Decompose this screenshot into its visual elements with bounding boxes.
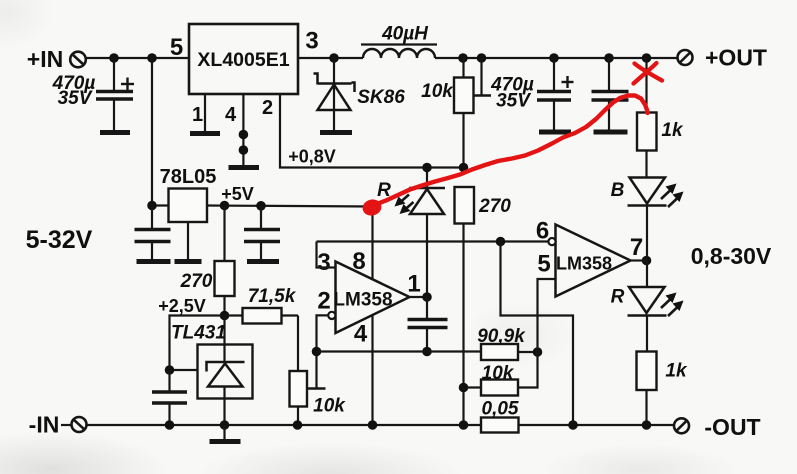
svg-text:1k: 1k: [665, 361, 688, 382]
svg-text:78L05: 78L05: [160, 166, 217, 188]
wire 1k chain top: [645, 58, 647, 113]
capacitor C7 op1 out: [408, 297, 448, 352]
label TL431: [171, 323, 226, 344]
capacitor C6 ref: [152, 370, 187, 425]
node junction C_in: [109, 53, 119, 63]
value label 470µ output: [490, 75, 534, 96]
wire bottom rail left: [87, 424, 482, 426]
capacitor C4 78L05 input: [135, 206, 171, 261]
svg-text:5: 5: [537, 251, 550, 278]
ground pin 4: [229, 165, 260, 170]
junction 10k mid left: [459, 383, 469, 393]
svg-text:8: 8: [352, 248, 365, 275]
regulator U2 78L05: [169, 189, 208, 223]
value label 71,5k: [248, 286, 297, 307]
op-amp U5 LM358: [556, 225, 631, 297]
svg-text:270: 270: [180, 271, 213, 292]
svg-text:90,9k: 90,9k: [477, 326, 526, 347]
junction 270 right top: [459, 163, 469, 173]
value label 270 left: [180, 271, 213, 292]
resistor R10 0,05 shunt: [481, 418, 519, 433]
svg-text:6: 6: [536, 218, 549, 245]
svg-text:SK86: SK86: [357, 87, 405, 108]
terminal +IN: [27, 46, 86, 72]
pin 3 label op1: [317, 249, 330, 276]
net label +2,5V: [158, 296, 206, 316]
value label 1k bottom: [665, 361, 688, 382]
value label 470µ: [52, 73, 96, 94]
ground C1: [100, 130, 130, 135]
value label 35V output: [496, 91, 531, 112]
arrows LED B: [661, 184, 684, 208]
value label 270 right: [478, 196, 511, 217]
junction lineA left: [312, 347, 322, 357]
junction 1k chain: [642, 53, 652, 63]
svg-text:4: 4: [225, 104, 237, 126]
value label 0,05: [482, 399, 519, 420]
resistor R2 1k top: [637, 113, 657, 178]
resistor R9 10k mid: [464, 352, 538, 396]
svg-text:+0,8V: +0,8V: [288, 147, 336, 167]
svg-text:35V: 35V: [496, 91, 531, 112]
wire pin 1: [204, 94, 206, 133]
junction LED chain rail: [642, 420, 652, 430]
shunt regulator U3 TL431: [198, 316, 253, 426]
capacitor C1 470µ 35V input: [96, 58, 134, 131]
svg-text:R: R: [611, 287, 625, 308]
junction 78L05 in: [147, 201, 157, 211]
wiper R6: [308, 352, 326, 389]
svg-text:-OUT: -OUT: [704, 414, 760, 440]
svg-text:XL4005E1: XL4005E1: [197, 49, 289, 71]
label 5-32V: [26, 226, 93, 254]
wire input to 78L05: [152, 58, 169, 206]
wire op1 output: [410, 296, 428, 298]
capacitor C3 output: [592, 58, 629, 131]
svg-text:10k: 10k: [313, 396, 346, 417]
svg-text:+IN: +IN: [27, 46, 63, 72]
junction sense rail: [568, 420, 578, 430]
wire TL431 ref: [170, 316, 225, 371]
svg-text:270: 270: [478, 196, 511, 217]
junction 10k top: [458, 53, 468, 63]
svg-text:0,05: 0,05: [482, 399, 519, 420]
svg-text:2: 2: [317, 288, 330, 315]
junction 10k left bottom: [293, 420, 303, 430]
wire pin 2 feedback to +0,8V net: [280, 94, 464, 168]
resistor R5 71,5k: [225, 308, 299, 324]
value label 40µH: [381, 24, 429, 45]
junction diode D1: [329, 53, 339, 63]
svg-text:B: B: [611, 180, 625, 201]
junction pin 4 a: [239, 130, 249, 140]
pin 4 label: [225, 104, 237, 126]
value label 10k top: [421, 81, 454, 102]
node junction 78L05 feed: [147, 53, 157, 63]
net label +0,8V: [288, 147, 336, 167]
net label +5V: [221, 184, 254, 204]
inductor L1 40µH: [361, 45, 437, 59]
ground C5: [247, 259, 279, 264]
junction C3: [604, 53, 614, 63]
wire sense drop: [501, 242, 574, 426]
terminal +OUT: [678, 45, 767, 71]
arrows LED R right: [661, 293, 684, 317]
resistor R4 270 left: [215, 206, 235, 316]
junction 270 left top: [220, 201, 230, 211]
wire bottom rail right: [519, 424, 675, 426]
wire line A: [317, 350, 482, 352]
ground pin 1: [190, 131, 220, 136]
capacitor C2 470µ 35V output: [537, 58, 574, 131]
svg-text:5: 5: [170, 34, 183, 61]
ground C4: [137, 259, 171, 264]
junction LED R cathode: [422, 163, 432, 173]
trimmer R1 10k top: [454, 58, 474, 168]
bubble op2 inverting: [548, 238, 555, 245]
svg-text:-IN: -IN: [29, 412, 60, 438]
wire op1 pin3 hook: [317, 242, 336, 268]
junction 90,9k right: [533, 347, 543, 357]
resistor R8 90,9k: [481, 344, 538, 360]
ground D1: [320, 130, 352, 135]
junction op1 output: [422, 292, 432, 302]
ground TL431: [210, 425, 241, 442]
pin 2 label: [262, 97, 273, 119]
trimmer R6 10k left: [290, 371, 308, 425]
label 0,8-30V: [691, 243, 772, 269]
wire op2 pin5 hook: [538, 279, 556, 352]
value label 35V: [58, 88, 93, 109]
value label 1k top: [661, 120, 684, 141]
junction op1 pin4 rail: [368, 420, 378, 430]
junction C2: [549, 53, 559, 63]
svg-text:+2,5V: +2,5V: [158, 296, 206, 316]
svg-text:1k: 1k: [661, 120, 684, 141]
resistor R3 1k bottom: [637, 352, 657, 426]
svg-text:3: 3: [305, 28, 318, 55]
svg-text:1: 1: [407, 271, 420, 298]
label R right: [611, 287, 625, 308]
svg-text:5-32V: 5-32V: [26, 226, 93, 254]
svg-text:4: 4: [354, 321, 368, 348]
svg-text:2: 2: [262, 97, 273, 119]
red X annotation: [634, 63, 663, 84]
LED R left: [409, 168, 445, 298]
svg-text:3: 3: [317, 249, 330, 276]
pin 5 label: [170, 34, 183, 61]
label R left: [377, 180, 391, 201]
svg-text:10k: 10k: [482, 363, 515, 384]
wire pin 4: [242, 94, 244, 166]
pin 7 label: [630, 234, 643, 261]
ground 78L05: [175, 259, 202, 264]
junction TL431 bottom: [220, 420, 230, 430]
junction pin 4 b: [239, 145, 249, 155]
diode D1 SK86 schottky: [314, 58, 355, 131]
regulator U1 XL4005E1: [189, 24, 298, 94]
terminal -IN: [29, 412, 87, 438]
svg-text:0,8-30V: 0,8-30V: [691, 243, 772, 269]
op-amp U4 LM358: [333, 262, 409, 334]
wiper R1: [473, 58, 491, 96]
value label 10k left: [313, 396, 346, 417]
label 78L05: [160, 166, 217, 188]
wire sense line pin6: [317, 240, 549, 242]
svg-text:+OUT: +OUT: [705, 45, 767, 71]
label B: [611, 180, 625, 201]
ground C3: [594, 130, 628, 135]
wire 78L05 gnd pin: [187, 222, 189, 261]
svg-text:7: 7: [630, 234, 643, 261]
wire op1 supply pin8: [371, 207, 373, 280]
junction C5: [256, 201, 266, 211]
svg-text:LM358: LM358: [333, 290, 392, 311]
wire op1 supply pin4: [371, 315, 373, 425]
value label 10k mid: [482, 363, 515, 384]
wire 71,5k to 10k left: [297, 316, 299, 372]
junction C7 lineA: [422, 347, 432, 357]
pin 1 label op1: [407, 271, 420, 298]
junction sense line: [496, 237, 506, 247]
junction 270 right rail: [459, 420, 469, 430]
wire op2 output: [631, 259, 647, 261]
red blob annotation: [361, 197, 383, 217]
svg-text:35V: 35V: [58, 88, 93, 109]
junction wiper top: [477, 53, 487, 63]
svg-text:TL431: TL431: [171, 323, 226, 344]
pin 8 label op1: [352, 248, 365, 275]
junction +2,5V node: [220, 311, 230, 321]
svg-text:1: 1: [192, 104, 203, 126]
ground C2: [539, 130, 571, 135]
pin 1 label: [192, 104, 203, 126]
red curve annotation: [374, 96, 648, 206]
wire op1 pin2 hook: [317, 315, 329, 351]
LED B blue: [628, 178, 667, 261]
resistor R7 270 right: [455, 187, 475, 425]
wire +OUT rail: [435, 57, 678, 59]
svg-text:71,5k: 71,5k: [248, 286, 297, 307]
LED R right: [628, 261, 667, 352]
junction op2 output: [642, 256, 652, 266]
arrows LED R left: [395, 195, 414, 215]
pin 6 label op2: [536, 218, 549, 245]
terminal -OUT: [674, 414, 761, 440]
value label SK86: [357, 87, 405, 108]
wire +IN to pin5: [86, 57, 189, 59]
pin 5 label op2: [537, 251, 550, 278]
capacitor C5 +5V: [244, 206, 280, 261]
junction TL431 ref: [165, 365, 175, 375]
junction C6 bottom: [165, 420, 175, 430]
pin 4 label op1: [354, 321, 368, 348]
svg-text:40µH: 40µH: [381, 24, 429, 45]
pin 3 label: [305, 28, 318, 55]
wire pin 3: [298, 57, 363, 59]
value label 90,9k: [477, 326, 526, 347]
svg-text:10k: 10k: [421, 81, 454, 102]
svg-text:LM358: LM358: [556, 254, 612, 274]
wire +5V rail: [207, 206, 372, 207]
bubble op1 inverting: [328, 312, 335, 319]
pin 2 label op1: [317, 288, 330, 315]
